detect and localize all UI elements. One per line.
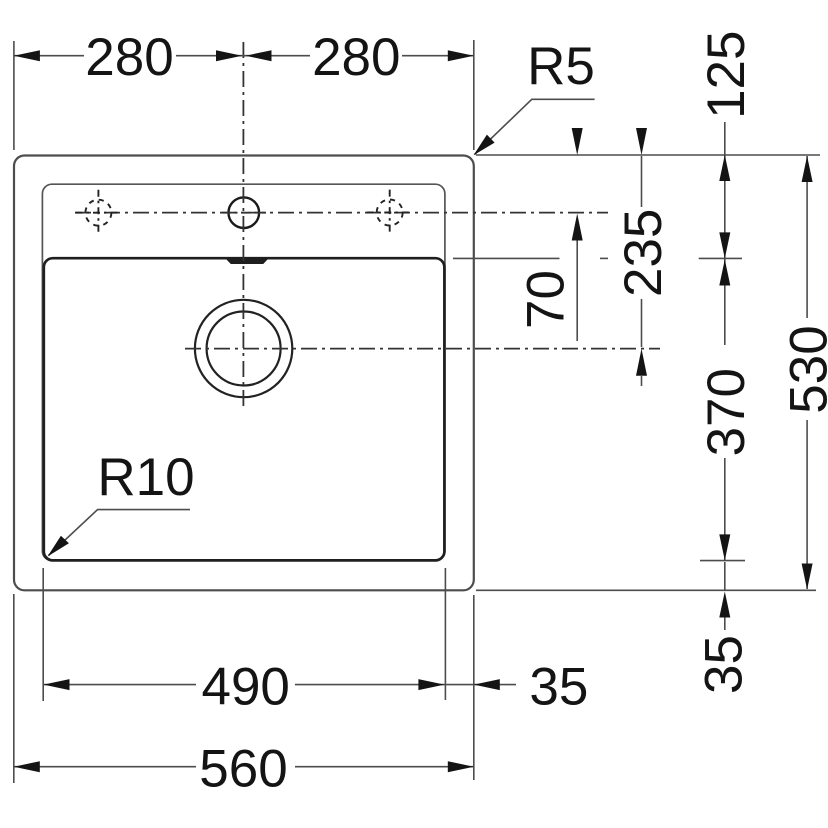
drain outer circle	[195, 300, 292, 397]
svg-text:560: 560	[199, 739, 287, 798]
overflow slot	[226, 258, 269, 264]
dimension 235	[641, 156, 643, 386]
svg-text:70: 70	[517, 270, 576, 329]
dimension 70	[576, 240, 578, 341]
ext line sink top to right	[476, 154, 820, 156]
sink rim inner line	[42, 184, 445, 560]
sink outer outline	[14, 156, 474, 591]
svg-text:490: 490	[201, 658, 289, 717]
faucet hole centerline horizontal	[222, 212, 267, 214]
drain inner circle	[207, 312, 281, 386]
svg-text:35: 35	[529, 658, 588, 717]
faucet hole	[229, 197, 260, 228]
svg-text:280: 280	[85, 28, 173, 87]
dimension 370	[724, 259, 726, 560]
dimension 560	[14, 766, 474, 768]
svg-text:280: 280	[312, 28, 400, 87]
R5 leader	[475, 99, 595, 154]
ext line sink left below	[13, 594, 15, 783]
tick bowl bottom at chain	[700, 560, 745, 562]
ext line sink right below	[473, 595, 475, 780]
ext line bowl right below	[444, 568, 446, 700]
svg-text:530: 530	[779, 325, 828, 413]
ext line bowl top right	[453, 257, 560, 259]
bowl outline	[44, 258, 445, 560]
svg-text:235: 235	[614, 209, 673, 297]
svg-text:370: 370	[697, 368, 756, 456]
svg-text:R5: R5	[527, 37, 595, 96]
dimension 35 vertical	[724, 562, 726, 630]
svg-text:125: 125	[697, 30, 756, 118]
R10 leader	[49, 510, 191, 556]
ext line bowl left below	[42, 568, 44, 701]
dimension 490	[44, 684, 517, 686]
ext line top right	[473, 40, 475, 150]
drain centerline	[185, 348, 660, 350]
ext line top left	[13, 41, 15, 150]
optional tap hole marker left	[76, 190, 122, 236]
vertical centerline	[242, 42, 244, 409]
svg-text:R10: R10	[97, 448, 194, 507]
ext line sink bottom to right	[476, 589, 816, 591]
dimension 280 left	[14, 55, 474, 57]
optional tap hole marker right	[367, 190, 413, 236]
tick bowl top at chain	[699, 257, 742, 259]
dimension 530	[806, 156, 808, 589]
svg-text:35: 35	[695, 635, 754, 694]
tap holes centerline	[75, 212, 608, 214]
dimension 125	[724, 122, 726, 258]
